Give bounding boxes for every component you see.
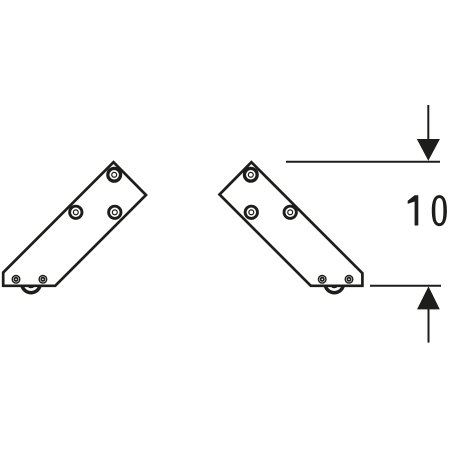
right plate rivet middle-inner [244, 205, 259, 220]
left plate assembly [3, 162, 146, 294]
right plate rivet top [243, 167, 259, 183]
top dimension arrow leader [427, 105, 429, 145]
dimension label 10 : digit 0 [432, 195, 447, 226]
left plate rivet top [106, 167, 122, 183]
bottom dimension arrow leader [428, 305, 430, 343]
right plate assembly [220, 162, 363, 294]
left roller wheel [20, 273, 42, 295]
top extension line [286, 161, 440, 163]
bottom dimension arrowhead [417, 286, 440, 309]
dimension label 10 : digit 1 [408, 195, 419, 225]
left plate small rivet left [12, 275, 21, 284]
top dimension arrowhead [417, 139, 440, 161]
bottom extension line [370, 285, 441, 287]
right plate rivet middle-outer [283, 205, 298, 220]
left plate rivet middle-left [68, 205, 83, 220]
right plate outline [220, 162, 363, 286]
right plate small rivet inner [318, 275, 327, 284]
left plate outline [3, 162, 146, 286]
right plate small rivet outer [345, 275, 354, 284]
right roller wheel [323, 273, 345, 295]
left plate small rivet right [38, 275, 47, 284]
left plate rivet middle-right [107, 205, 122, 220]
